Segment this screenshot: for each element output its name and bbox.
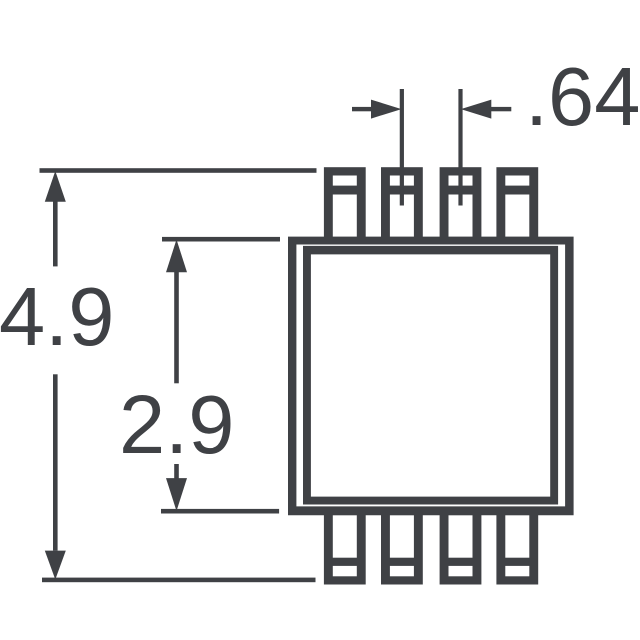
pin 1 (top row, leftmost) — [324, 167, 366, 240]
extension line: overall top (4.9 dim) — [40, 168, 317, 173]
dimension line 2.9: upper tail — [174, 272, 179, 383]
extension line: .64 left (through pin 2 center) — [400, 89, 404, 206]
dimension text .64 — [525, 55, 640, 138]
extension line: overall bottom (4.9 dim) — [42, 578, 316, 583]
dimension line 2.9: lower tail — [174, 464, 179, 479]
pin 4 (top row, rightmost) — [496, 167, 538, 240]
dimension line 4.9: upper tail — [53, 202, 58, 267]
dimension text 4.9 — [0, 275, 114, 358]
pin 8 (bottom row, rightmost) — [496, 512, 538, 585]
dimension line 4.9: up arrowhead — [45, 171, 66, 202]
package body inner outline — [303, 246, 558, 505]
dimension line 4.9: lower tail — [53, 374, 58, 550]
pin 7 (bottom row) — [440, 512, 482, 585]
.64 left arrowhead (points right) — [371, 100, 402, 119]
pin 5 (bottom row, leftmost) — [324, 512, 366, 585]
pin 2 (top row) — [381, 167, 423, 240]
dimension line 2.9: up arrowhead — [166, 240, 187, 273]
extension line: body top (2.9 dim) — [162, 237, 280, 242]
dimension line 2.9: down arrowhead — [166, 478, 187, 511]
dimension line 4.9: down arrowhead — [45, 551, 66, 580]
extension line: body bottom (2.9 dim) — [161, 509, 279, 514]
pin 3 (top row) — [440, 167, 482, 240]
extension line: .64 right (through pin 3 center) — [458, 89, 462, 206]
.64 right arrowhead (points left) — [461, 100, 492, 119]
dimension text 2.9 — [119, 383, 234, 466]
.64 right arrow tail — [489, 107, 511, 111]
.64 left arrow tail — [352, 107, 374, 111]
package body outer outline — [288, 237, 574, 516]
pin 6 (bottom row) — [381, 512, 423, 585]
